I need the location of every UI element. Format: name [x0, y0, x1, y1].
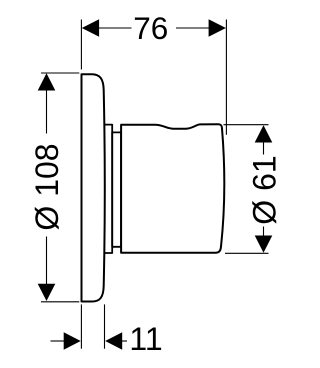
svg-text:11: 11: [129, 321, 162, 357]
svg-text:76: 76: [133, 10, 168, 46]
svg-text:Ø 108: Ø 108: [29, 143, 65, 230]
svg-text:Ø 61: Ø 61: [247, 155, 283, 224]
